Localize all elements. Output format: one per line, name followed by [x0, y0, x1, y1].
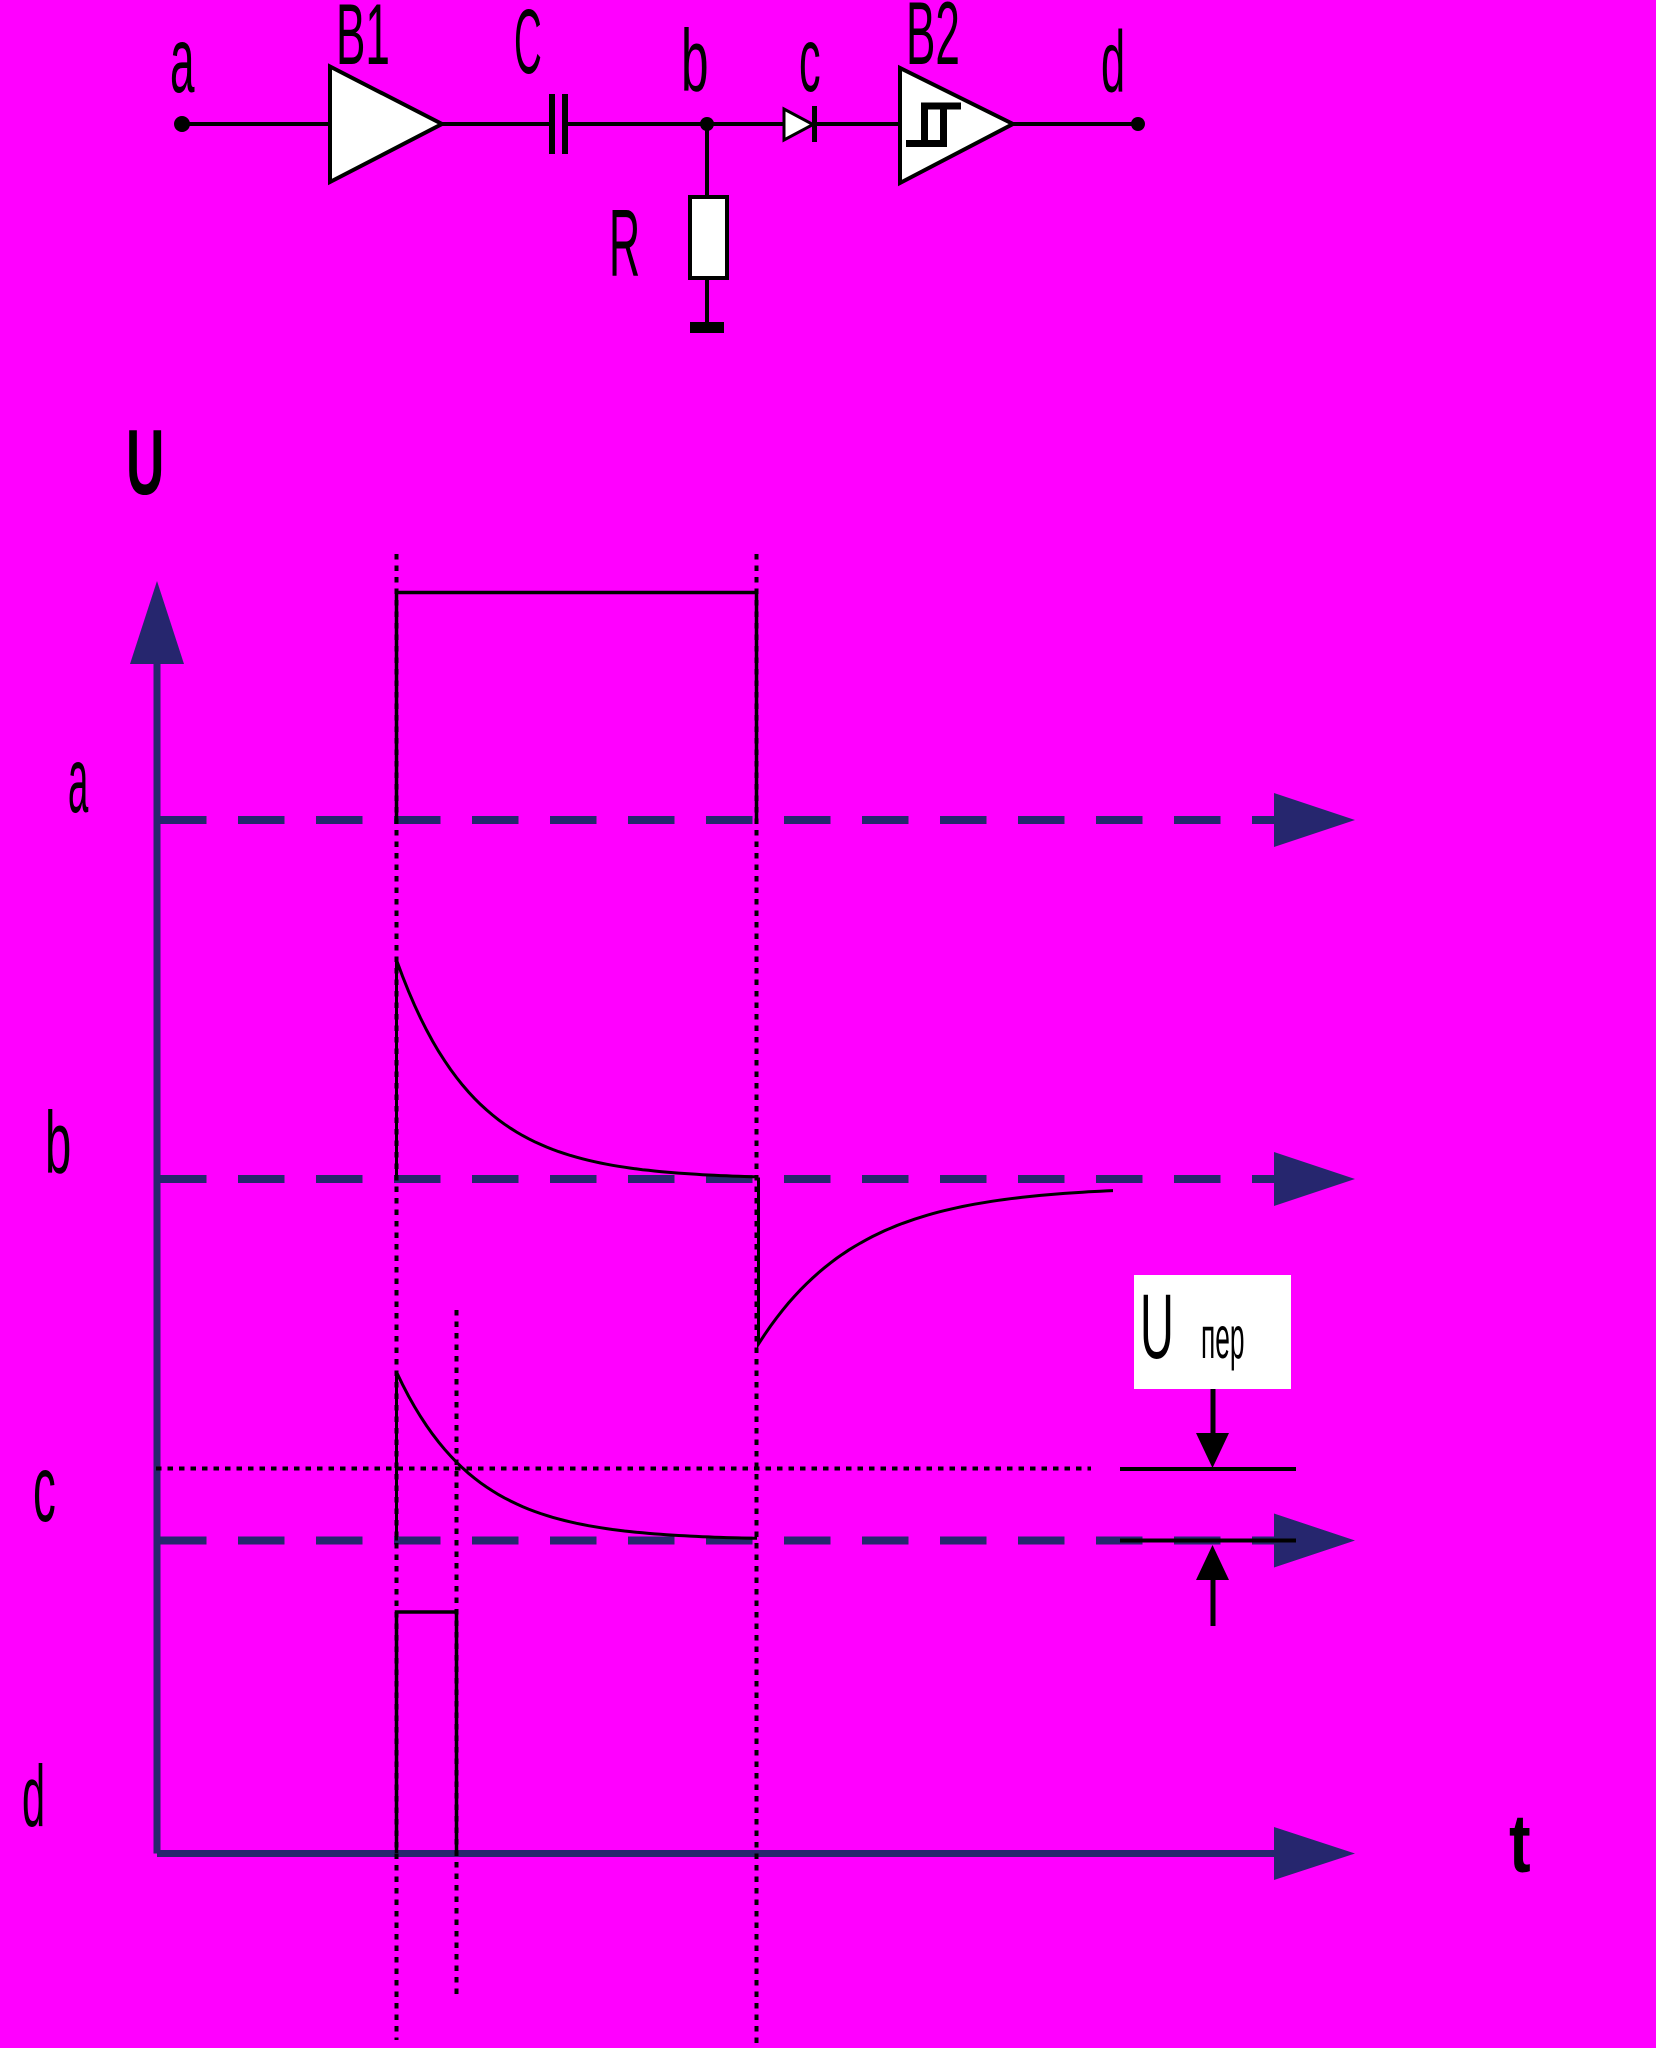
svg-text:c: c: [33, 1436, 56, 1542]
svg-text:b: b: [45, 1093, 71, 1191]
svg-text:a: a: [170, 9, 195, 113]
svg-text:пер: пер: [1201, 1305, 1244, 1371]
svg-text:d: d: [1101, 14, 1125, 111]
svg-text:R: R: [609, 190, 640, 297]
svg-text:U: U: [126, 411, 164, 515]
svg-text:a: a: [68, 728, 89, 832]
svg-text:C: C: [514, 0, 542, 93]
svg-text:t: t: [1509, 1797, 1531, 1889]
svg-text:B1: B1: [336, 0, 390, 83]
svg-text:b: b: [681, 12, 709, 111]
svg-text:c: c: [799, 11, 821, 112]
svg-text:U: U: [1140, 1276, 1174, 1378]
svg-text:d: d: [22, 1748, 45, 1845]
svg-text:B2: B2: [906, 0, 960, 83]
